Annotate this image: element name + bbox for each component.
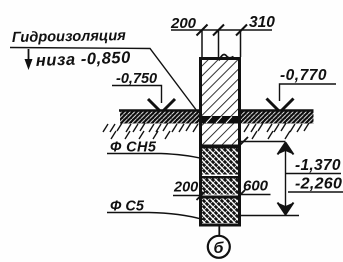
svg-text:600: 600 — [243, 178, 269, 195]
down arrow before низа — [28, 49, 30, 67]
column mid hatched section (below slab band) — [202, 124, 238, 146]
up arrowhead — [278, 143, 294, 155]
svg-text:-1,370: -1,370 — [295, 157, 341, 174]
svg-text:310: 310 — [249, 14, 275, 31]
level line at -1,370 — [241, 141, 286, 143]
svg-text:-2,260: -2,260 — [295, 176, 342, 193]
tick on level line near column — [239, 137, 248, 146]
foundation block 1 (dense hatch) — [202, 149, 238, 175]
tick at column right edge — [236, 190, 245, 199]
axis leader line to circle — [218, 226, 220, 236]
tick at column left edge — [197, 191, 206, 200]
leader arrowhead at column edge — [194, 109, 208, 117]
svg-text:Гидроизоляция: Гидроизоляция — [12, 28, 127, 46]
svg-text:-0,770: -0,770 — [280, 67, 327, 84]
label Ф СН5 with leader — [107, 140, 202, 159]
label underline + leader to column — [10, 48, 197, 112]
svg-text:б: б — [214, 240, 225, 257]
label Ф С5 with leader — [107, 199, 203, 220]
svg-text:200: 200 — [173, 180, 198, 196]
tick marks on top dimension — [197, 25, 248, 36]
svg-text:200: 200 — [170, 15, 197, 32]
level line at -2,260 (bottom) — [241, 215, 299, 217]
svg-text:-0,750: -0,750 — [116, 71, 157, 87]
elevation mark -0,770 (right) — [267, 67, 337, 112]
elevation mark -0,750 (left) — [112, 71, 175, 113]
extension line middle (wall face, continues over hatch) — [218, 30, 220, 114]
joint line between block1 and block2 — [201, 176, 239, 179]
column outline — [201, 59, 240, 226]
down arrowhead — [278, 203, 294, 215]
slab-level dark band inside column — [201, 116, 239, 124]
svg-text:низа -0,850: низа -0,850 — [36, 49, 132, 70]
soil hatch under left slab — [103, 123, 198, 139]
column upper hatched section — [202, 60, 238, 117]
soil hatch under right slab — [244, 123, 309, 139]
joint band below slab level — [200, 145, 240, 149]
foundation block 2 (dense hatch) — [202, 179, 238, 195]
joint line at dim level — [201, 196, 239, 199]
slab band right — [241, 111, 314, 124]
top dimension line — [171, 29, 272, 31]
foundation block 3 (dense hatch) — [202, 199, 238, 224]
extension line right (column face) — [240, 30, 242, 57]
vertical dimension line right — [285, 142, 287, 215]
slab band left — [120, 111, 199, 124]
break squiggle at column top — [219, 55, 234, 61]
axis bubble circle Б — [208, 236, 230, 258]
extension line left (wall face) — [201, 30, 203, 58]
